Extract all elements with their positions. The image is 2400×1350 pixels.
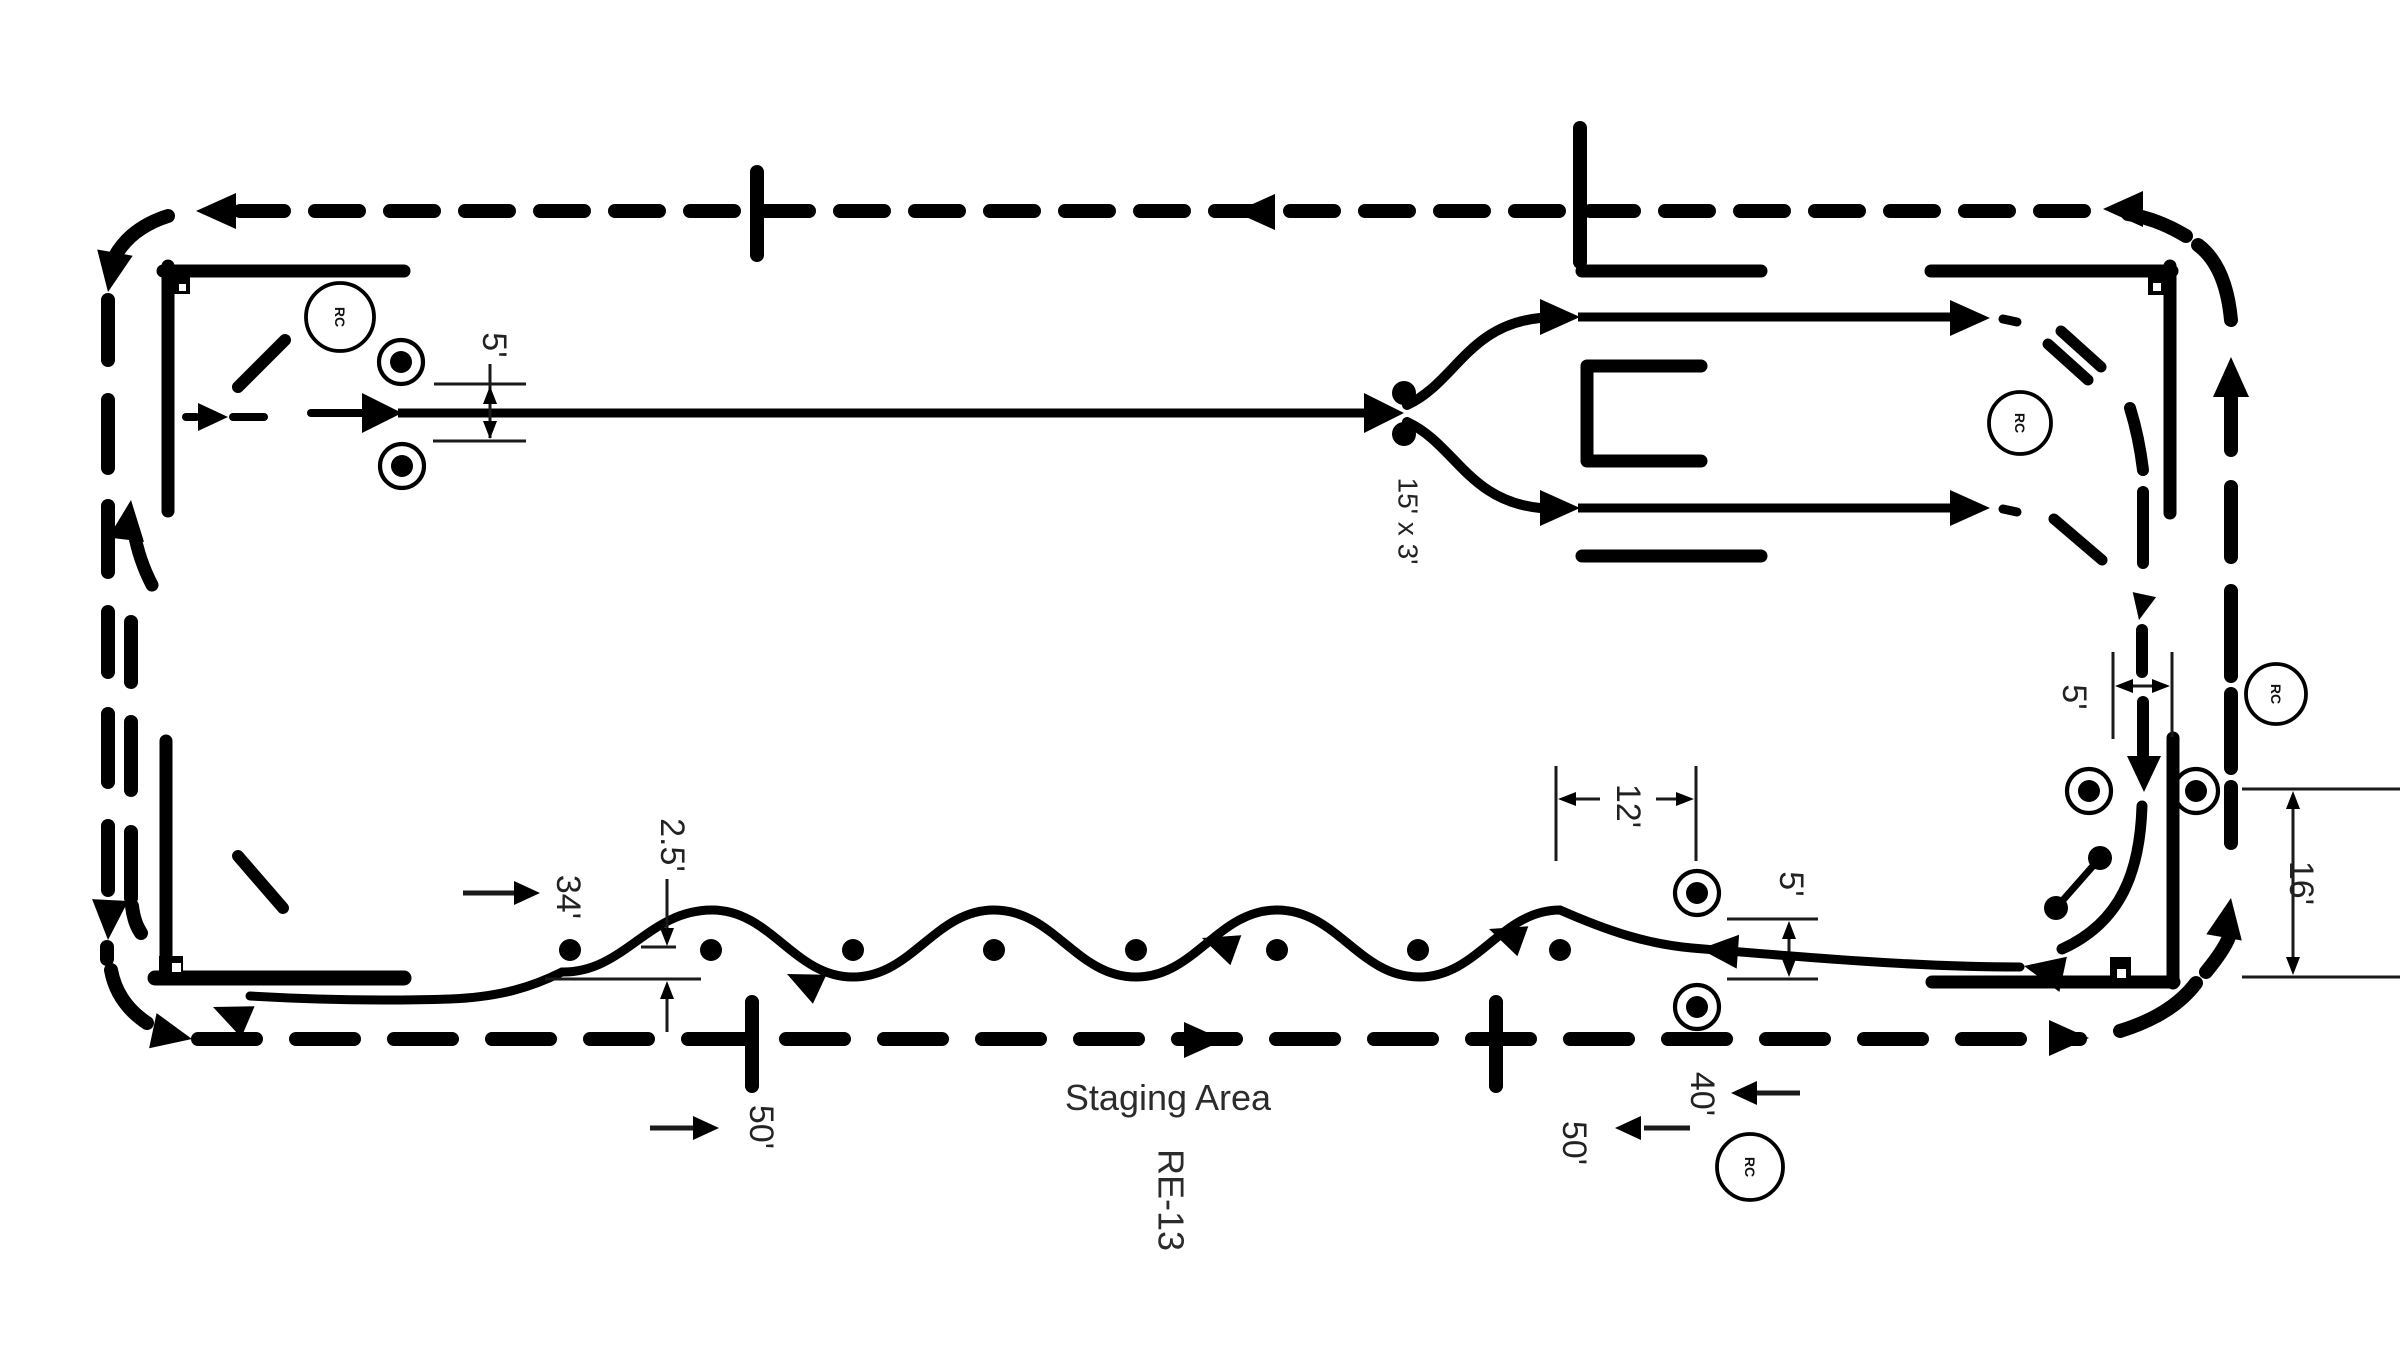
svg-text:15' x 3': 15' x 3': [1393, 478, 1424, 565]
svg-text:5': 5': [2055, 684, 2093, 709]
svg-text:34': 34': [549, 875, 587, 919]
svg-text:RC: RC: [2268, 684, 2284, 704]
svg-text:12': 12': [1609, 784, 1647, 828]
svg-text:RC: RC: [2012, 413, 2028, 433]
svg-text:50': 50': [1555, 1121, 1593, 1165]
svg-text:50': 50': [742, 1105, 780, 1149]
svg-text:RC: RC: [332, 307, 348, 327]
svg-text:RE-13: RE-13: [1151, 1149, 1192, 1251]
svg-text:40': 40': [1683, 1072, 1721, 1116]
svg-text:5': 5': [475, 332, 513, 357]
svg-text:RC: RC: [1742, 1157, 1758, 1177]
svg-text:5': 5': [1772, 871, 1810, 896]
svg-text:16': 16': [2282, 861, 2320, 905]
svg-text:2.5': 2.5': [653, 818, 691, 872]
svg-text:Staging Area: Staging Area: [1065, 1077, 1272, 1118]
